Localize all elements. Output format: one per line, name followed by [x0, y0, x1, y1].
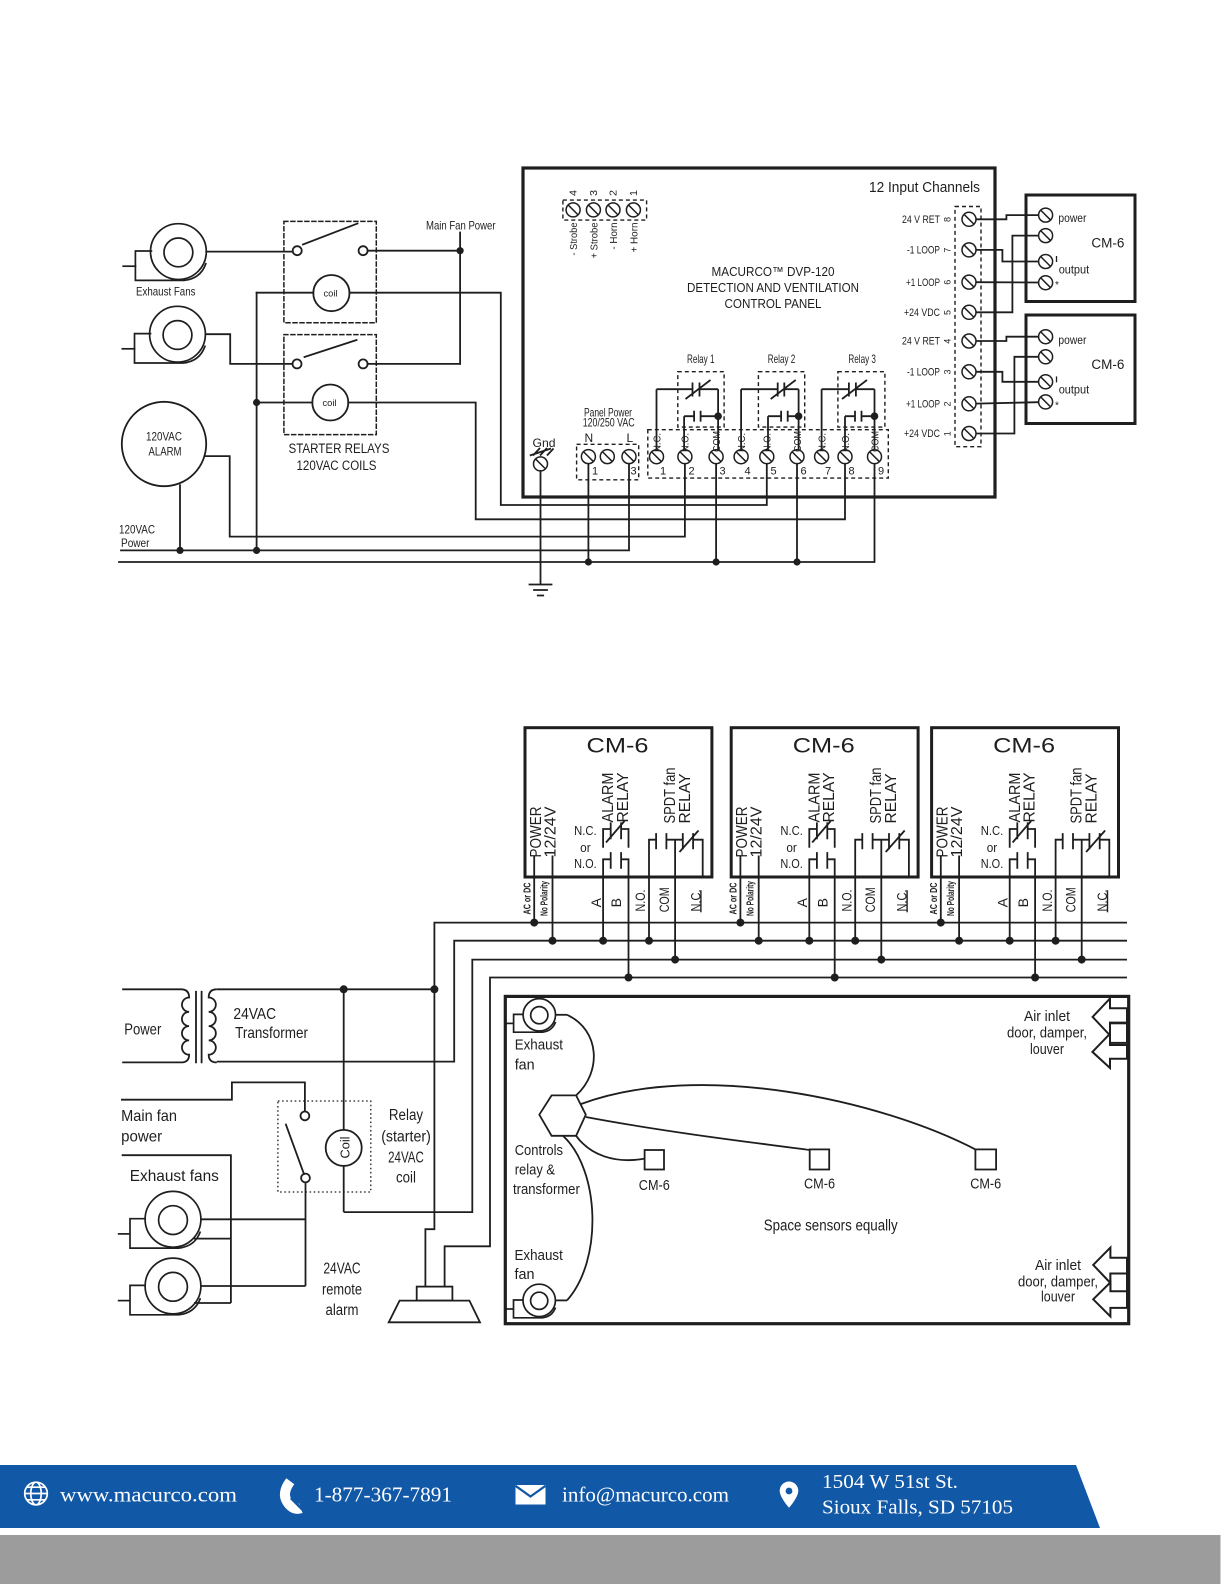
svg-text:+ Strobe: + Strobe — [589, 222, 600, 258]
svg-text:3: 3 — [631, 466, 637, 478]
junction dot neutral at terminal3 — [713, 558, 720, 565]
wire fan4 lower lead — [194, 1302, 231, 1304]
wire alarm bottom lead — [179, 485, 181, 550]
air inlet damper box top — [1110, 1023, 1127, 1043]
svg-text:output: output — [1059, 262, 1090, 276]
svg-text:24 V RET: 24 V RET — [902, 214, 940, 226]
horn terminal screw 1 — [626, 203, 640, 217]
svg-text:coil: coil — [323, 398, 337, 409]
input strip dashed box — [955, 207, 981, 447]
tick mark CM-6A output1 — [1056, 256, 1058, 262]
svg-text:Power: Power — [121, 536, 150, 550]
wire coil1 right lead to terminal5 — [350, 293, 767, 505]
wire N terminal drop — [587, 464, 589, 562]
relay3 NO contact — [845, 411, 875, 422]
relay1 COM lead down to screw3 — [717, 389, 719, 450]
switch SW2 blade — [305, 340, 357, 357]
svg-text:3: 3 — [943, 369, 953, 374]
svg-text:relay &: relay & — [515, 1161, 555, 1178]
room exhaust fan top — [506, 999, 555, 1033]
gnd screw — [534, 457, 548, 471]
air inlet arrow top2 — [1092, 1034, 1127, 1068]
wire 24VRET4 to CM-6B power+ — [976, 337, 1039, 341]
exhaust fan FAN2 — [122, 306, 205, 363]
svg-text:COM: COM — [793, 431, 804, 452]
location pin icon — [780, 1482, 799, 1508]
wire +24VDC5 to CM-6A power- — [976, 236, 1039, 313]
svg-text:+24 VDC: +24 VDC — [904, 428, 940, 440]
input screw 1 — [962, 427, 976, 441]
svg-text:Air inlet: Air inlet — [1024, 1008, 1071, 1025]
svg-text:3: 3 — [720, 466, 726, 478]
input screw 8 — [962, 212, 976, 226]
svg-text:Transformer: Transformer — [235, 1025, 308, 1042]
wire fan3 lower lead — [194, 1238, 231, 1240]
svg-text:CM-6: CM-6 — [1091, 357, 1124, 372]
bus row1 24VAC hot — [425, 923, 1127, 1287]
air inlet arrow bottom1 — [1093, 1248, 1127, 1283]
svg-text:remote: remote — [322, 1281, 362, 1298]
svg-text:N.C.: N.C. — [817, 433, 828, 452]
sensor square CM-6 s3 — [975, 1149, 996, 1169]
DVP-120 panel border — [523, 168, 995, 497]
relay2 NO lead down to screw5 — [767, 416, 769, 450]
CM-6 sensor box B — [1026, 315, 1135, 424]
junction dot neutral at terminal6 — [793, 558, 800, 565]
bus row2 24VAC return — [217, 941, 1127, 1062]
svg-text:24VAC: 24VAC — [233, 1006, 276, 1023]
curve hexagon to sensor2 — [586, 1117, 810, 1150]
svg-text:2: 2 — [943, 401, 953, 406]
CM-6 B screw output2 — [1039, 395, 1053, 409]
relay2 dashed box — [758, 372, 804, 427]
controls hexagon — [539, 1095, 586, 1135]
sensor square CM-6 s2 — [810, 1149, 830, 1169]
svg-text:*: * — [1055, 400, 1059, 411]
svg-text:L: L — [627, 431, 634, 445]
CM-6 A screw output2 — [1039, 276, 1053, 290]
wire sw1 right contact to main fan power node — [368, 250, 461, 252]
input screw 5 — [962, 305, 976, 319]
svg-text:+1 LOOP: +1 LOOP — [906, 277, 940, 289]
svg-text:Exhaust Fans: Exhaust Fans — [136, 285, 196, 299]
wire -1LOOP3 to CM-6B output1 — [976, 372, 1039, 382]
svg-text:120VAC: 120VAC — [146, 430, 182, 444]
svg-text:Space sensors equally: Space sensors equally — [764, 1218, 898, 1235]
relay coil circle — [326, 1130, 362, 1166]
junction dot neutral at N — [585, 558, 592, 565]
switch SW2 right contact — [359, 359, 368, 368]
svg-text:coil: coil — [324, 289, 338, 300]
wire fan1 to switch1 left contact — [206, 251, 292, 253]
exhaust fan FAN4 — [118, 1258, 201, 1315]
CM-6 sensor box A — [1026, 195, 1135, 302]
svg-text:Power: Power — [124, 1022, 162, 1039]
wire fan4 upper lead — [201, 1285, 306, 1287]
svg-text:louver: louver — [1030, 1041, 1064, 1058]
wire terminal6 drop — [796, 464, 798, 562]
svg-text:Exhaust fans: Exhaust fans — [130, 1168, 219, 1185]
strobe-horn terminal dashed box — [563, 200, 647, 220]
CM-6 unit 3 — [929, 728, 1119, 982]
terminal screw 2 — [678, 450, 692, 464]
CM-6 A screw power- — [1039, 229, 1053, 243]
wire 120VAC hot bus — [121, 464, 629, 551]
svg-text:+1 LOOP: +1 LOOP — [906, 399, 940, 411]
terminal screw 5 — [760, 450, 774, 464]
exhaust fan FAN3 — [118, 1191, 201, 1248]
transformer secondary — [209, 989, 217, 1062]
wire exhaust fans feed — [122, 1155, 231, 1303]
globe icon — [25, 1482, 48, 1505]
wire main fan power vertical — [459, 233, 461, 364]
relay coil top lead — [343, 989, 345, 1130]
svg-text:8: 8 — [943, 217, 953, 222]
relay switch top contact — [301, 1112, 310, 1121]
air inlet damper box bottom — [1110, 1274, 1127, 1293]
relay1 NC slash — [686, 380, 711, 399]
relay coil bottom lead — [343, 1166, 345, 1212]
remote alarm speaker body — [417, 1287, 453, 1301]
room fan5 outlet stub — [556, 1014, 568, 1016]
wire coil2 left lead — [257, 402, 313, 404]
coil COIL2 circle — [312, 385, 348, 421]
wire fan2 outlet to switch2 left contact — [207, 334, 293, 364]
svg-text:(starter): (starter) — [381, 1128, 431, 1145]
junction dot transformer top to row1 vertical — [430, 985, 438, 993]
svg-text:1-877-367-7891: 1-877-367-7891 — [314, 1483, 452, 1507]
svg-text:N: N — [585, 431, 594, 445]
panel power screw mid — [600, 450, 614, 464]
relay2 NO contact — [768, 411, 799, 422]
switch SW2 left contact — [293, 359, 302, 368]
svg-text:CM-6: CM-6 — [1091, 235, 1124, 250]
footer blue banner — [0, 1465, 1100, 1528]
phone icon — [285, 1481, 304, 1510]
svg-text:info@macurco.com: info@macurco.com — [562, 1483, 729, 1507]
input screw 6 — [962, 275, 976, 289]
room fan6 outlet stub — [555, 1299, 567, 1301]
wire +1LOOP2 to CM-6B output2 — [976, 402, 1039, 403]
svg-text:DETECTION AND VENTILATION: DETECTION AND VENTILATION — [687, 280, 859, 295]
svg-text:N.O.: N.O. — [681, 433, 692, 452]
exhaust fan FAN1 (top-left) — [123, 224, 206, 281]
svg-text:1: 1 — [660, 466, 666, 478]
wire coil1 left lead — [257, 292, 314, 294]
transformer core — [196, 991, 202, 1063]
relay2 COM lead down to screw6 — [798, 389, 800, 450]
relay3 left lead down to screw7 — [821, 389, 823, 450]
svg-text:transformer: transformer — [513, 1181, 580, 1198]
transformer primary — [122, 989, 189, 1062]
terminal screw 3 — [709, 450, 723, 464]
svg-text:N.C.: N.C. — [652, 433, 663, 452]
svg-text:5: 5 — [771, 466, 777, 478]
switch SW1 left contact — [293, 246, 302, 255]
svg-text:1: 1 — [943, 431, 953, 436]
svg-text:coil: coil — [396, 1170, 416, 1187]
input screw 7 — [962, 243, 976, 257]
relay3 junction dot — [871, 412, 879, 420]
svg-text:24VAC: 24VAC — [388, 1149, 424, 1166]
relay1 dashed box — [678, 372, 724, 427]
svg-text:6: 6 — [943, 280, 953, 285]
wire terminal3 drop — [715, 464, 717, 562]
bus row3 COM — [344, 960, 1127, 1213]
curve hexagon to fan5 — [567, 1015, 594, 1096]
sensor square CM-6 s1 — [645, 1150, 664, 1170]
svg-text:Relay 2: Relay 2 — [768, 352, 796, 366]
CM-6 B screw power- — [1039, 350, 1053, 364]
label input strip rotated numbers — [943, 217, 953, 436]
input screw 4 — [962, 334, 976, 348]
120VAC alarm bell — [122, 402, 206, 486]
svg-text:N.O.: N.O. — [841, 433, 852, 452]
wire fan3 upper lead — [201, 1218, 306, 1220]
mail icon — [516, 1485, 546, 1505]
wire 120VAC neutral bus — [119, 464, 875, 562]
svg-text:+24 VDC: +24 VDC — [904, 307, 940, 319]
relay3 dashed box — [838, 372, 885, 427]
svg-text:Main Fan Power: Main Fan Power — [426, 219, 496, 233]
svg-text:1: 1 — [592, 466, 598, 478]
junction dot coil2 feed — [253, 399, 260, 406]
svg-text:power: power — [1058, 333, 1086, 347]
horn terminal screw 2 — [606, 203, 620, 217]
relay2 junction dot — [795, 412, 803, 420]
relay switch bottom contact — [301, 1174, 310, 1183]
svg-text:-1 LOOP: -1 LOOP — [907, 245, 940, 257]
svg-text:CONTROL PANEL: CONTROL PANEL — [725, 296, 822, 311]
panel power N-L dashed box — [577, 444, 639, 480]
junction dot main fan power — [457, 247, 464, 254]
starter relay 2 dashed box — [284, 335, 376, 435]
svg-text:power: power — [1058, 211, 1086, 225]
svg-text:STARTER RELAYS: STARTER RELAYS — [289, 441, 390, 456]
svg-text:4: 4 — [943, 339, 953, 344]
CM-6 unit 2 — [729, 728, 919, 982]
svg-text:8: 8 — [849, 466, 855, 478]
svg-text:door, damper,: door, damper, — [1007, 1025, 1087, 1042]
svg-text:ALARM: ALARM — [149, 445, 182, 459]
wire switch bottom to fans — [305, 1182, 307, 1286]
svg-text:louver: louver — [1041, 1289, 1075, 1306]
svg-text:Air inlet: Air inlet — [1035, 1257, 1082, 1274]
svg-text:Main fan: Main fan — [121, 1108, 177, 1125]
panel power screw N — [581, 450, 595, 464]
terminal screw 9 — [868, 450, 882, 464]
svg-text:12 Input Channels: 12 Input Channels — [869, 179, 980, 196]
svg-text:CM-6: CM-6 — [804, 1175, 835, 1192]
switch SW1 blade — [303, 224, 358, 245]
svg-text:6: 6 — [801, 466, 807, 478]
terminal screw 1 — [650, 450, 664, 464]
CM-6 A screw output1 — [1039, 255, 1053, 269]
curve hexagon to fan6 — [563, 1136, 592, 1301]
svg-text:1504 W 51st St.: 1504 W 51st St. — [822, 1472, 958, 1493]
svg-text:fan: fan — [515, 1056, 535, 1073]
svg-text:Coil: Coil — [339, 1137, 353, 1159]
svg-text:Relay: Relay — [389, 1107, 423, 1124]
svg-text:N.O.: N.O. — [763, 433, 774, 452]
svg-text:N.C.: N.C. — [737, 433, 748, 452]
junction dot coil top lead — [340, 985, 348, 993]
svg-text:Exhaust: Exhaust — [515, 1247, 564, 1264]
relay1 left lead down to screw1 — [656, 389, 658, 450]
wire +24VDC1 to CM-6B power- — [976, 357, 1039, 434]
svg-text:120VAC: 120VAC — [119, 522, 155, 536]
input screw 2 — [962, 397, 976, 411]
svg-text:CM-6: CM-6 — [970, 1175, 1001, 1192]
starter relay 1 dashed box — [284, 221, 376, 322]
relay terminals dashed box — [648, 430, 889, 478]
terminal screw 4 — [734, 450, 748, 464]
svg-text:24VAC: 24VAC — [323, 1261, 360, 1278]
svg-text:*: * — [1055, 280, 1059, 291]
svg-text:output: output — [1059, 382, 1090, 396]
relay1 NO contact — [684, 411, 718, 422]
air inlet arrow top1 — [1093, 999, 1127, 1036]
room exhaust fan bottom — [506, 1284, 555, 1318]
junction dot feeder on hot bus — [253, 547, 260, 554]
svg-text:1: 1 — [629, 190, 640, 196]
wire +1LOOP6 to CM-6A output2 — [976, 281, 1039, 283]
svg-text:www.macurco.com: www.macurco.com — [60, 1483, 237, 1507]
strobe terminal screw 3 — [586, 203, 600, 217]
svg-text:MACURCO™ DVP-120: MACURCO™ DVP-120 — [712, 264, 835, 279]
tick mark CM-6B output1 — [1056, 376, 1058, 382]
svg-text:2: 2 — [689, 466, 695, 478]
footer gray bar — [0, 1535, 1221, 1584]
relay switch blade — [286, 1124, 305, 1175]
svg-text:2: 2 — [608, 190, 619, 196]
remote alarm speaker horn — [389, 1301, 480, 1323]
wire sw2 right contact to main fan power vertical — [368, 363, 461, 365]
curve hexagon to sensor3 — [581, 1085, 975, 1149]
svg-text:120VAC COILS: 120VAC COILS — [297, 458, 377, 473]
input screw 3 — [962, 365, 976, 379]
relay1 junction dot — [714, 412, 722, 420]
svg-text:5: 5 — [943, 310, 953, 315]
svg-text:+ Horn: + Horn — [629, 223, 640, 253]
svg-text:4: 4 — [569, 190, 580, 196]
junction dot alarm on hot bus — [176, 547, 183, 554]
svg-text:9: 9 — [878, 466, 884, 478]
svg-text:Controls: Controls — [515, 1142, 563, 1159]
relay1 NC contact — [657, 383, 719, 397]
curve hexagon to sensor1 — [576, 1136, 645, 1160]
svg-text:Relay 3: Relay 3 — [848, 352, 876, 366]
strobe terminal screw 4 — [566, 203, 580, 217]
svg-text:fan: fan — [515, 1266, 535, 1283]
svg-text:4: 4 — [745, 466, 751, 478]
svg-text:Gnd: Gnd — [533, 436, 556, 450]
panel power screw L — [622, 450, 636, 464]
wire alarm right lead to terminal2 — [205, 456, 685, 536]
gnd chassis symbol — [530, 448, 554, 456]
svg-text:power: power — [121, 1128, 163, 1145]
relay2 NC slash — [771, 380, 796, 399]
relay2 NC contact — [741, 383, 799, 397]
svg-text:Exhaust: Exhaust — [515, 1037, 564, 1054]
relay3 NC contact — [822, 383, 875, 397]
relay2 left lead down to screw4 — [740, 389, 742, 450]
terminal screw 6 — [790, 450, 804, 464]
wire 24VRET8 to CM-6A power+ — [976, 215, 1039, 219]
svg-text:120/250 VAC: 120/250 VAC — [583, 416, 635, 430]
terminal screw 8 — [838, 450, 852, 464]
relay3 COM lead down to screw9 — [874, 389, 876, 450]
svg-text:CM-6: CM-6 — [639, 1177, 670, 1194]
relay3 NC slash — [842, 380, 867, 399]
wire gnd drop — [540, 471, 542, 583]
CM-6 A screw power+ — [1039, 208, 1053, 222]
svg-text:3: 3 — [589, 190, 600, 196]
svg-text:COM: COM — [712, 431, 723, 452]
svg-text:-1 LOOP: -1 LOOP — [907, 367, 940, 379]
wire transformer secondary top lead — [217, 988, 435, 990]
wire coil2 right lead to terminal8 — [348, 403, 845, 520]
wire -1LOOP7 to CM-6A output1 — [976, 250, 1039, 262]
switch SW1 right contact — [359, 246, 368, 255]
svg-text:- Horn: - Horn — [609, 223, 620, 250]
svg-text:7: 7 — [825, 466, 831, 478]
svg-text:alarm: alarm — [326, 1302, 359, 1319]
bus row4 B — [445, 978, 1127, 1287]
terminal screw 7 — [815, 450, 829, 464]
svg-text:7: 7 — [943, 248, 953, 253]
room boundary — [505, 996, 1128, 1323]
wire main fan power to relay switch — [121, 1082, 305, 1111]
svg-text:24 V RET: 24 V RET — [902, 336, 940, 348]
relay3 NO lead down to screw8 — [844, 416, 846, 450]
earth ground symbol — [530, 585, 552, 596]
coil COIL1 circle — [313, 275, 349, 311]
CM-6 unit 1 — [522, 728, 712, 982]
relay1 NO lead down to screw2 — [683, 416, 685, 450]
svg-text:Sioux Falls, SD 57105: Sioux Falls, SD 57105 — [822, 1498, 1013, 1519]
svg-text:- Strobe: - Strobe — [569, 222, 580, 255]
relay starter dotted box — [278, 1101, 371, 1192]
CM-6 B screw power+ — [1039, 330, 1053, 344]
CM-6 B screw output1 — [1039, 375, 1053, 389]
svg-text:Relay 1: Relay 1 — [687, 352, 715, 366]
wire hot feeder vertical x256.6 — [256, 293, 258, 551]
svg-text:COM: COM — [870, 431, 881, 452]
air inlet arrow bottom2 — [1093, 1282, 1127, 1316]
